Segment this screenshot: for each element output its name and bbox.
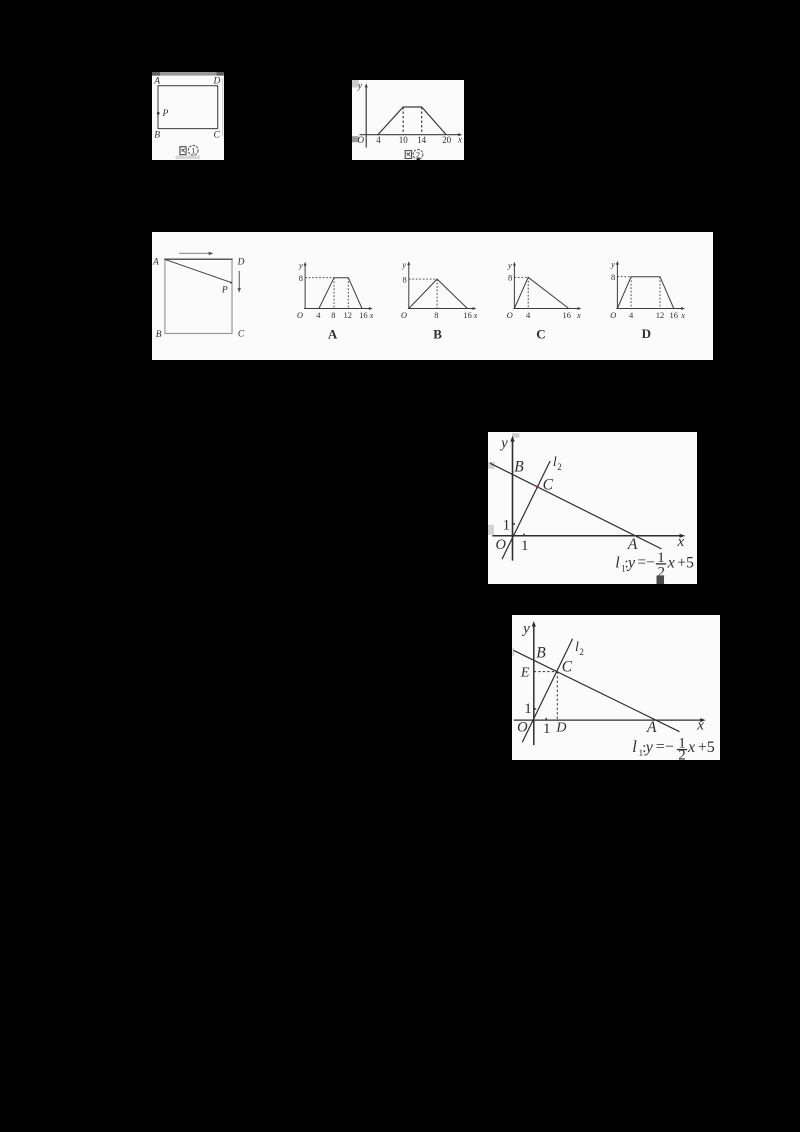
label A — [152, 257, 159, 267]
top motion arrow — [179, 251, 213, 255]
option D: dashed vertical x=12 — [659, 276, 661, 308]
line l1 — [490, 463, 661, 549]
svg-text:P: P — [162, 109, 169, 119]
svg-text:14: 14 — [417, 135, 426, 145]
rectangle ABCD — [158, 85, 218, 128]
caption 图② (drawn glyphs) — [405, 149, 423, 160]
figure box 5: line graph with E and D — [512, 615, 720, 760]
option D: label O — [610, 310, 616, 320]
option C: dashed vertical x=4 — [527, 277, 529, 308]
label E — [520, 665, 530, 680]
svg-text:E: E — [520, 665, 530, 680]
svg-text:x: x — [680, 310, 685, 320]
label B — [514, 458, 524, 475]
svg-text:4: 4 — [526, 310, 531, 320]
svg-text:y: y — [610, 259, 615, 269]
option C: dashed level 8 — [514, 276, 528, 278]
svg-text:x: x — [576, 310, 581, 320]
svg-text:C: C — [562, 658, 573, 675]
x tick 1 — [521, 533, 529, 554]
label D — [213, 76, 221, 86]
dashed vertical at 10 — [402, 107, 404, 135]
label x — [696, 717, 704, 733]
svg-text:C: C — [238, 329, 245, 339]
svg-text:A: A — [153, 76, 160, 86]
gray smudge under caption — [176, 155, 201, 159]
y-axis — [364, 83, 367, 147]
option D: y-axis — [616, 261, 619, 309]
diagonal A to P — [165, 259, 231, 282]
intersection point C (red) — [536, 485, 539, 488]
option B: answer letter — [433, 326, 442, 341]
svg-text:O: O — [517, 719, 528, 735]
figure box 3: answer strip with square ABCD and options A-D — [152, 232, 713, 360]
option B: label 8 — [402, 274, 406, 284]
svg-text:y: y — [499, 435, 508, 451]
svg-text:D: D — [213, 76, 221, 86]
option D: label y — [610, 259, 615, 269]
label A — [646, 719, 657, 736]
svg-text:C: C — [536, 326, 545, 341]
label A — [153, 76, 160, 86]
svg-text:8: 8 — [508, 272, 512, 282]
option A: dashed vertical x=8 — [333, 277, 335, 308]
svg-text:x: x — [369, 310, 374, 320]
gray artifact square near axis top — [512, 433, 519, 437]
scrollbar-like gray bar — [152, 72, 224, 76]
dashed horizontal E to C — [534, 671, 557, 673]
option A: y-axis — [304, 262, 307, 309]
option B: triangle curve — [409, 279, 468, 308]
svg-text:2: 2 — [416, 150, 420, 159]
label O — [357, 135, 364, 145]
svg-text:O: O — [610, 310, 616, 320]
x-axis — [359, 133, 462, 136]
option A: answer letter — [328, 326, 338, 341]
label A — [627, 536, 638, 553]
svg-text:x: x — [687, 739, 695, 756]
svg-text:B: B — [154, 130, 160, 140]
option D: x-axis — [616, 307, 685, 310]
label C — [214, 130, 221, 140]
svg-text:l: l — [553, 455, 557, 470]
svg-text:x: x — [473, 310, 478, 320]
svg-text:P: P — [221, 285, 228, 295]
x-axis — [492, 533, 685, 537]
svg-text:1: 1 — [521, 538, 529, 554]
label y — [521, 621, 530, 637]
svg-text:B: B — [433, 326, 442, 341]
svg-text:=−: =− — [637, 554, 654, 571]
option D: dashed level 8 — [617, 275, 631, 277]
label B — [536, 645, 546, 662]
svg-text:y: y — [644, 739, 654, 756]
option D: tick labels — [629, 310, 685, 320]
svg-text:D: D — [642, 326, 651, 341]
svg-text:12: 12 — [344, 310, 352, 320]
svg-text:y: y — [357, 80, 362, 90]
label y — [499, 435, 508, 451]
x tick 1 — [543, 718, 551, 737]
y-axis — [532, 621, 536, 745]
svg-text:O: O — [495, 536, 506, 552]
option D: answer letter — [642, 326, 651, 341]
svg-text:2: 2 — [678, 747, 686, 760]
option D: label 8 — [611, 272, 615, 282]
label x — [676, 533, 684, 549]
y tick 1 — [503, 517, 515, 533]
option B: dashed level 8 — [409, 278, 437, 280]
label C — [543, 476, 554, 493]
svg-text:B: B — [514, 458, 524, 475]
label O — [517, 719, 528, 735]
svg-text:+5: +5 — [698, 739, 715, 756]
option C: y-axis — [513, 262, 516, 309]
svg-text:12: 12 — [656, 310, 664, 320]
label P — [162, 109, 169, 119]
label D — [555, 720, 566, 735]
option B: label y — [401, 259, 406, 269]
svg-text:8: 8 — [402, 274, 406, 284]
svg-text:l: l — [615, 554, 620, 571]
svg-text:A: A — [627, 536, 638, 553]
svg-text:C: C — [214, 130, 221, 140]
gray artifact square at left edge lower — [488, 524, 494, 534]
svg-text:=−: =− — [656, 738, 674, 755]
option C: peak curve — [514, 277, 568, 308]
small edge artifact — [512, 648, 514, 656]
dark artifact square at bottom — [656, 575, 663, 584]
option A: label O — [297, 310, 303, 320]
right motion arrow (down) — [238, 271, 241, 293]
y-axis — [510, 435, 514, 560]
line l2 — [522, 639, 572, 742]
option A: tick labels — [316, 310, 373, 320]
option C: label 8 — [508, 272, 512, 282]
option A: x-axis — [304, 307, 373, 310]
tick label 14 — [417, 135, 426, 145]
svg-text:16: 16 — [563, 310, 571, 320]
gray artifact square at left edge upper — [488, 461, 495, 468]
line l1 — [514, 650, 680, 731]
option B: y-axis — [407, 261, 410, 309]
dashed vertical C to D — [556, 672, 558, 720]
label y — [357, 80, 362, 90]
option C: label O — [507, 310, 513, 320]
x-axis — [514, 718, 706, 722]
option C: answer letter — [536, 326, 545, 341]
option B: tick labels — [434, 310, 477, 320]
figure box 2: trapezoid graph (图②) — [352, 80, 465, 161]
svg-text:1: 1 — [543, 721, 551, 737]
svg-text:x: x — [696, 717, 704, 733]
option C: tick labels — [526, 310, 581, 320]
equation l1: y = -1/2 x + 5 — [632, 736, 715, 764]
figure box 4: line graph l1 l2 — [488, 432, 697, 584]
svg-text:+5: +5 — [677, 554, 694, 571]
svg-text:2: 2 — [579, 647, 584, 657]
svg-text:y: y — [298, 260, 303, 270]
option B: dashed vertical x=8 — [436, 279, 438, 308]
label C — [562, 658, 573, 675]
option A: label 8 — [299, 273, 303, 283]
svg-text:y: y — [626, 554, 636, 571]
svg-text:1: 1 — [524, 701, 532, 717]
point P dot — [230, 281, 232, 283]
svg-text:O: O — [297, 310, 303, 320]
option A: dashed vertical x=12 — [347, 277, 349, 308]
option A: dashed level 8 — [305, 276, 334, 278]
svg-text:2: 2 — [557, 461, 562, 471]
equation l1: y = -1/2 x + 5 — [615, 550, 694, 580]
svg-text:O: O — [357, 135, 364, 145]
option D: dashed vertical x=4 — [630, 276, 632, 308]
svg-text:4: 4 — [376, 135, 381, 145]
option A: label y — [298, 260, 303, 270]
svg-text:1: 1 — [191, 146, 195, 155]
faint right edge line — [222, 78, 224, 136]
svg-text:x: x — [457, 134, 462, 144]
y tick 1 — [524, 701, 536, 717]
svg-text:y: y — [507, 260, 512, 270]
svg-text:16: 16 — [463, 310, 471, 320]
tick label 20 — [442, 135, 451, 145]
label l2 — [553, 455, 562, 472]
figure box 1: rectangle ABCD with point P (图①) — [152, 72, 224, 161]
option C: x-axis — [513, 307, 581, 310]
gray artifact square top-left — [352, 80, 359, 87]
option B: label O — [401, 310, 407, 320]
svg-text:8: 8 — [331, 310, 335, 320]
svg-text:D: D — [237, 257, 245, 267]
svg-text:8: 8 — [611, 272, 615, 282]
option C: label y — [507, 260, 512, 270]
svg-text:A: A — [328, 326, 338, 341]
svg-text:x: x — [667, 554, 675, 571]
svg-text:20: 20 — [442, 135, 451, 145]
svg-text:10: 10 — [398, 135, 407, 145]
svg-text:A: A — [152, 257, 159, 267]
gray artifact square left at axis — [352, 136, 359, 142]
tick label 10 — [398, 135, 407, 145]
line l2 — [502, 461, 550, 559]
dashed vertical at 14 — [420, 107, 422, 135]
svg-text:8: 8 — [434, 310, 438, 320]
svg-text:C: C — [543, 476, 554, 493]
svg-text:1: 1 — [503, 517, 511, 533]
svg-text:16: 16 — [359, 310, 367, 320]
svg-text:B: B — [536, 645, 546, 662]
svg-text:y: y — [521, 621, 530, 637]
point P dot — [157, 111, 160, 114]
option B: x-axis — [408, 307, 477, 310]
svg-text:16: 16 — [670, 310, 678, 320]
svg-text:x: x — [676, 533, 684, 549]
svg-text:O: O — [401, 310, 407, 320]
trapezoid curve — [377, 107, 445, 135]
caption 图① (drawn glyphs) — [180, 145, 198, 155]
label l2 — [575, 640, 584, 657]
label B — [154, 130, 160, 140]
label O — [495, 536, 506, 552]
svg-text:l: l — [575, 640, 579, 655]
label P — [221, 285, 228, 295]
svg-text:8: 8 — [299, 273, 303, 283]
label x — [457, 134, 462, 144]
svg-text:D: D — [555, 720, 566, 735]
svg-text:y: y — [401, 259, 406, 269]
svg-text:B: B — [156, 330, 162, 340]
option D: trapezoid curve — [617, 276, 673, 308]
label D — [237, 257, 245, 267]
option A: trapezoid curve — [319, 277, 362, 308]
svg-text:4: 4 — [629, 310, 634, 320]
tick label 4 — [376, 135, 381, 145]
svg-text:A: A — [646, 719, 657, 736]
svg-text:O: O — [507, 310, 513, 320]
svg-text:4: 4 — [316, 310, 321, 320]
svg-text:l: l — [632, 737, 637, 756]
square ABCD — [164, 259, 232, 333]
label B — [156, 330, 162, 340]
label C — [238, 329, 245, 339]
